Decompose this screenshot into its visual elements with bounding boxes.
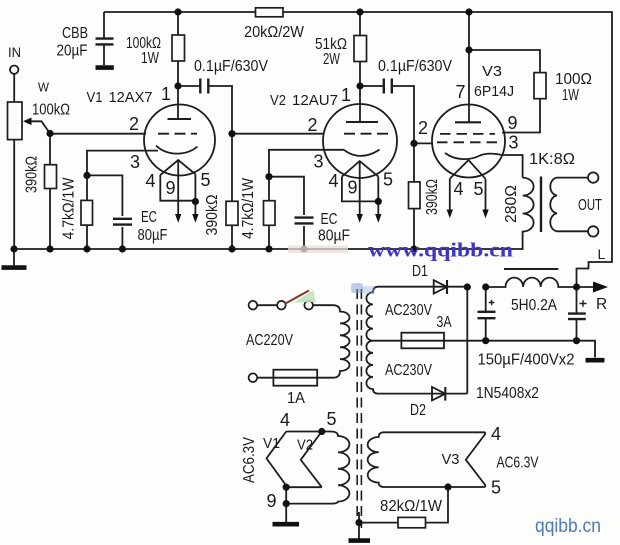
resistor 4.7k V1 body [81, 200, 93, 225]
wire V1 pin5 arrow [194, 202, 196, 216]
wire 51k plate resistor branch [359, 12, 361, 122]
resistor 51k 2W body [354, 36, 367, 62]
wire centre tap through 3A fuse to ground [373, 341, 595, 358]
arrowhead V3 pin5 [482, 210, 488, 219]
svg-text:3: 3 [130, 152, 140, 172]
wire coupling cap1 net and V2 grid leak [178, 86, 324, 249]
node C1 bottom [482, 337, 489, 344]
svg-text:AC230V: AC230V [385, 302, 433, 319]
svg-text:IN: IN [8, 45, 21, 60]
node choke out [573, 283, 580, 290]
svg-text:EC: EC [141, 209, 157, 226]
svg-text:3A: 3A [437, 314, 453, 331]
svg-text:12AX7: 12AX7 [109, 90, 153, 106]
ground left [2, 265, 27, 270]
svg-text:4: 4 [280, 410, 290, 430]
node shield ground [355, 519, 362, 526]
switch terminal 3 [304, 301, 313, 310]
wire V1 heater centre tap arrow [177, 160, 179, 215]
wire screen feed through 100R [469, 50, 540, 133]
svg-text:3: 3 [314, 152, 324, 172]
svg-text:3: 3 [509, 133, 519, 153]
heater winding 6.3V V1V2 [286, 432, 349, 504]
node bus 390k V2 [228, 245, 235, 252]
node heater pin5 [318, 428, 325, 435]
diode D1 cathode bar [446, 280, 448, 294]
svg-text:4.7kΩ/1W: 4.7kΩ/1W [240, 178, 257, 239]
svg-text:4: 4 [454, 179, 464, 199]
node junction rail 100k [174, 8, 181, 15]
heater winding 6.3V V3 [368, 432, 486, 487]
heater V1 symbol [267, 432, 287, 488]
diode D2 cathode bar [444, 387, 446, 401]
mains transformer core dashed left [356, 289, 358, 517]
arrowhead V2 pin5 [375, 214, 381, 223]
svg-text:W: W [38, 81, 49, 95]
node V2 grid junction [228, 130, 235, 137]
svg-text:V2: V2 [270, 93, 286, 109]
node screen feed tap [465, 46, 472, 53]
wire EC2 branch [269, 177, 304, 249]
svg-text:150µF/400Vx2: 150µF/400Vx2 [478, 352, 575, 369]
arrowhead V1 pin9 [175, 214, 181, 223]
svg-text:80µF: 80µF [318, 228, 350, 245]
node V1 pin5 junction [192, 198, 199, 205]
node bus 4.7k V2 [265, 245, 272, 252]
tube V3 heater [450, 160, 486, 179]
node bus 390k V3 [410, 245, 417, 252]
capacitor filter C1 150uF stem [485, 287, 487, 341]
fuse 3A body [401, 333, 444, 349]
svg-text:AC230V: AC230V [385, 362, 433, 379]
node heater winding bottom [283, 500, 290, 507]
wire pot wiper arrow [29, 121, 50, 133]
capacitor filter C2 plates [568, 314, 586, 320]
node junction rail 51k [356, 8, 363, 15]
ground heater [273, 522, 300, 527]
wire IN to potentiometer [13, 74, 15, 102]
choke core bar [504, 268, 558, 270]
mains transformer core dashed right [360, 289, 362, 528]
node V3 grid junction [410, 140, 417, 147]
node C2 bottom [573, 337, 580, 344]
wire V2 heater centre tap arrow [359, 161, 361, 215]
tube V2 grid dashes [344, 133, 390, 135]
svg-text:2W: 2W [323, 51, 340, 68]
resistor 390k V1 body [45, 165, 57, 189]
ground CBB [96, 65, 114, 70]
resistor 4.7k V2 body [264, 201, 276, 226]
output transformer core [540, 177, 542, 233]
svg-text:AC6.3V: AC6.3V [497, 455, 540, 472]
wire 100k plate resistor branch [177, 12, 179, 119]
svg-text:390kΩ: 390kΩ [24, 156, 41, 193]
terminal fuse 1A [249, 373, 258, 382]
switch lever highlight [294, 290, 316, 303]
svg-text:9: 9 [267, 491, 277, 511]
capacitor EC2 80uF plates [295, 218, 314, 224]
wire V3 plate pin7 drop [468, 12, 470, 122]
potentiometer W 100k body [8, 102, 23, 140]
wire B+ output to R arrow [577, 286, 595, 288]
svg-text:R: R [596, 296, 607, 313]
tube V1 plate bar [168, 118, 192, 120]
tube V3 control grid dashes [437, 141, 499, 143]
wire V3 cathode to output transformer primary [502, 155, 523, 178]
fuse 1A body [273, 370, 317, 386]
svg-text:V2: V2 [297, 438, 313, 454]
svg-text:OUT: OUT [578, 197, 602, 214]
svg-text:1W: 1W [562, 87, 579, 104]
svg-text:1: 1 [161, 84, 171, 104]
arrowhead V3 pin4 [447, 210, 453, 219]
svg-text:5: 5 [383, 170, 393, 190]
svg-text:CBB: CBB [62, 25, 88, 42]
node bus pot [10, 245, 17, 252]
node V1 pin1 [174, 82, 181, 89]
wire mains transformer primary with winding [257, 305, 349, 378]
capacitor EC1 80uF plates [113, 219, 132, 225]
tube V2 plate bar [346, 121, 378, 123]
svg-text:V3: V3 [482, 64, 502, 80]
wire D2 output riser [466, 287, 468, 394]
capacitor filter C2 150uF stem [576, 287, 578, 341]
tube V3 cathode arc [445, 153, 502, 159]
output transformer primary winding 280R [523, 178, 534, 250]
wire pot bottom to ground bus [13, 140, 15, 266]
choke 5H0.2A winding [486, 278, 577, 287]
resistor 390k V3 grid body [409, 182, 421, 209]
arrowhead wiper [23, 118, 32, 126]
wire V3 pin4 arrow [449, 179, 451, 211]
arrowhead R [593, 282, 608, 293]
switch terminal 1 [249, 301, 258, 310]
svg-text:2: 2 [308, 115, 318, 135]
svg-text:20kΩ/2W: 20kΩ/2W [244, 24, 304, 41]
node wiper junction [46, 130, 53, 137]
svg-text:2: 2 [129, 114, 139, 134]
tube V1 grid dashes [158, 133, 197, 135]
tube V1 heater [160, 160, 195, 201]
terminal OUT top [588, 172, 598, 182]
wire B+ rail with right-edge feed to node L [104, 12, 612, 287]
wire EC1 branch [87, 175, 122, 249]
output transformer secondary winding [550, 178, 588, 232]
ground transformer shield [349, 538, 371, 543]
wire V2 cathode net [269, 150, 344, 249]
node rectifier output [464, 283, 471, 290]
svg-text:82kΩ/1W: 82kΩ/1W [380, 498, 442, 515]
wire switch link [257, 304, 277, 306]
resistor 390k V2 grid body [226, 201, 238, 225]
wire core shield to ground [358, 512, 360, 539]
svg-text:5: 5 [327, 409, 337, 429]
wire CBB to ground [103, 45, 105, 66]
resistor 100R 1W body [534, 73, 546, 99]
svg-text:qqibb.cn: qqibb.cn [535, 515, 601, 537]
svg-text:V1: V1 [87, 90, 103, 106]
node V2 pin1 [356, 82, 363, 89]
svg-text:www.qqibb.cn: www.qqibb.cn [368, 240, 513, 262]
tube V3 plate bar [455, 121, 481, 123]
svg-text:5: 5 [474, 179, 484, 199]
node bus 390k V1 [46, 245, 53, 252]
wire heater tie and pin9 to ground [286, 487, 322, 522]
svg-text:5: 5 [491, 478, 501, 498]
svg-text:20µF: 20µF [57, 43, 88, 60]
svg-text:1W: 1W [141, 50, 159, 67]
tube V2 heater [342, 161, 378, 201]
node junction rail V3 plate [465, 8, 472, 15]
svg-text:280Ω: 280Ω [503, 185, 520, 223]
wire ground bus [14, 248, 523, 250]
svg-text:390kΩ: 390kΩ [424, 179, 441, 215]
svg-text:4: 4 [491, 424, 501, 444]
wire coupling cap2 net and V3 grid leak [360, 86, 433, 249]
svg-text:1K:8Ω: 1K:8Ω [529, 151, 575, 168]
polarity plus C2 [580, 300, 587, 307]
tube V3 6P14J envelope [432, 105, 505, 178]
terminal IN [10, 66, 18, 74]
capacitor 0.1uF/630V no.2 plates [384, 79, 392, 94]
node V2 pin5 junction [375, 198, 382, 205]
tube V1 cathode arc [156, 146, 198, 154]
blue smudge artifact left [351, 283, 363, 293]
node heater tie [283, 484, 290, 491]
svg-text:9: 9 [348, 178, 358, 198]
node C1 top [482, 283, 489, 290]
wire CBB top drop [103, 12, 105, 38]
wire 82k humdinger [359, 487, 448, 523]
svg-text:7: 7 [456, 82, 466, 102]
wire 390k V1 grid leak [49, 134, 51, 250]
resistor 82k/1W body [398, 517, 426, 527]
tube V3 screen grid dashes [440, 133, 495, 135]
heater V2 symbol [301, 432, 322, 488]
tube V2 cathode arc [344, 150, 380, 156]
wire V2 pin5 arrow [377, 201, 379, 215]
svg-text:390kΩ: 390kΩ [204, 195, 221, 236]
svg-text:4.7kΩ/1W: 4.7kΩ/1W [61, 177, 78, 239]
svg-text:1A: 1A [287, 390, 306, 407]
svg-text:1: 1 [341, 85, 351, 105]
svg-text:V3: V3 [442, 452, 460, 468]
wire V1 grid net to wiper [50, 133, 146, 135]
diode D1 [434, 280, 447, 293]
node bus EC1 [119, 245, 126, 252]
svg-text:L: L [598, 246, 606, 262]
tube V2 12AU7 envelope [323, 104, 397, 178]
svg-text:D1: D1 [412, 263, 428, 280]
svg-text:80µF: 80µF [138, 227, 168, 244]
node V2 cathode junction [265, 173, 272, 180]
svg-text:4: 4 [146, 171, 156, 191]
svg-text:AC220V: AC220V [246, 332, 294, 349]
svg-text:D2: D2 [410, 402, 426, 419]
node bus 4.7k V1 [83, 245, 90, 252]
diode D2 [432, 387, 445, 400]
svg-text:6P14J: 6P14J [474, 84, 514, 100]
svg-text:9: 9 [508, 113, 518, 133]
svg-text:4: 4 [329, 171, 339, 191]
capacitor CBB plates [96, 39, 114, 45]
resistor 20k/2W body on rail [256, 8, 284, 17]
arrowhead V2 pin9 [357, 214, 363, 223]
svg-text:2: 2 [418, 118, 428, 138]
svg-text:1N5408x2: 1N5408x2 [476, 385, 539, 402]
wire V1 cathode net [87, 151, 158, 249]
blue smudge artifact right [362, 286, 375, 294]
heater V3 symbol [466, 432, 485, 487]
svg-text:EC: EC [321, 211, 338, 228]
wire V3 pin5 arrow [485, 179, 487, 211]
scan smear on ground bus [288, 246, 348, 254]
svg-text:0.1µF/630V: 0.1µF/630V [194, 58, 269, 75]
switch lever [285, 291, 310, 305]
svg-text:100kΩ: 100kΩ [32, 102, 70, 119]
svg-text:9: 9 [166, 178, 176, 198]
arrowhead V1 pin5 [192, 214, 198, 223]
svg-text:V1: V1 [263, 436, 280, 452]
node V1 cathode junction [83, 172, 90, 179]
tube V1 12AX7 envelope [144, 105, 215, 176]
svg-text:AC6.3V: AC6.3V [241, 436, 258, 483]
svg-text:100Ω: 100Ω [555, 71, 592, 88]
node V3 heater pin5 [444, 483, 451, 490]
resistor 100k 1W body [172, 35, 185, 61]
ground PSU [586, 358, 605, 363]
capacitor filter C1 plates [478, 312, 496, 318]
svg-text:12AU7: 12AU7 [292, 93, 338, 109]
switch terminal 2 [277, 301, 286, 310]
capacitor 0.1uF/630V no.1 plates [200, 79, 208, 94]
svg-text:0.1µF/630V: 0.1µF/630V [378, 58, 453, 75]
svg-text:5: 5 [201, 170, 211, 190]
svg-text:5H0.2A: 5H0.2A [511, 297, 558, 314]
HV secondary winding AC230V x2 [366, 287, 467, 394]
node bus EC2 [300, 245, 307, 252]
polarity plus C1 [489, 300, 495, 306]
terminal OUT bottom [588, 226, 598, 236]
